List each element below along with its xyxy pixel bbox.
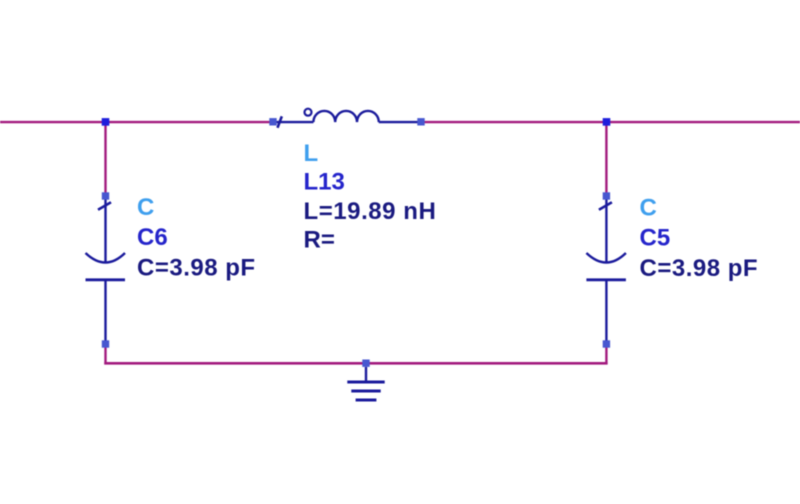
svg-text:L: L [304, 140, 319, 167]
svg-text:C: C [640, 195, 657, 222]
svg-text:R=: R= [304, 226, 335, 253]
svg-text:C: C [137, 194, 154, 221]
svg-text:C=3.98 pF: C=3.98 pF [640, 255, 759, 282]
svg-text:L=19.89 nH: L=19.89 nH [304, 198, 437, 225]
svg-text:C5: C5 [640, 225, 671, 252]
svg-text:L13: L13 [304, 168, 345, 195]
svg-text:C6: C6 [137, 224, 168, 251]
svg-text:C=3.98 pF: C=3.98 pF [137, 255, 256, 282]
